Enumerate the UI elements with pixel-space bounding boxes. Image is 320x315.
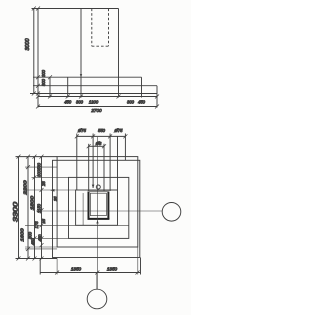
plan rect RB wide bbox=[53, 160, 140, 257]
arrow at pedestal base bbox=[80, 74, 82, 77]
left extension bottom bbox=[16, 258, 58, 260]
T1 extension socket right bbox=[109, 134, 111, 192]
left extension top bbox=[16, 156, 58, 158]
left extension 2200 bottom bbox=[25, 248, 57, 250]
left extension pedestal top bbox=[25, 189, 76, 191]
socket top thin line bbox=[88, 190, 110, 192]
svg-text:Ø75: Ø75 bbox=[77, 128, 87, 133]
bolt axis line bbox=[82, 193, 84, 225]
dimension line 3000 vertical bbox=[33, 9, 35, 94]
elevation: pedestal left edge bbox=[37, 9, 39, 94]
svg-text:560: 560 bbox=[37, 162, 42, 170]
elevation: upper step left edge bbox=[49, 77, 51, 97]
dim line L4 bbox=[41, 157, 43, 259]
svg-text:Ø8: Ø8 bbox=[95, 141, 102, 146]
socket inner rect bbox=[90, 193, 106, 215]
T1 extension arrow line bbox=[92, 134, 94, 189]
svg-text:300: 300 bbox=[37, 169, 42, 177]
svg-text:1150: 1150 bbox=[37, 203, 42, 213]
arrow under socket bbox=[96, 220, 98, 223]
dim line bottom row2 2700 bbox=[38, 106, 157, 108]
svg-text:25: 25 bbox=[41, 181, 46, 187]
svg-text:2200: 2200 bbox=[23, 180, 28, 196]
svg-text:300: 300 bbox=[41, 69, 46, 77]
svg-text:1600: 1600 bbox=[20, 228, 25, 242]
elevation: upper step top bbox=[33, 76, 142, 78]
svg-text:450: 450 bbox=[138, 99, 146, 104]
dim line L1 3300 bbox=[18, 157, 20, 259]
top dim line T2 bbox=[89, 145, 104, 147]
svg-text:450: 450 bbox=[37, 234, 42, 242]
ticks elevation bbox=[32, 7, 159, 109]
elevation: socket dashed right bbox=[108, 9, 110, 47]
svg-text:Ø75: Ø75 bbox=[114, 128, 124, 133]
elevation: inner vertical line bbox=[80, 9, 82, 98]
left extension pedestal bottom bbox=[25, 224, 129, 226]
bottom balloon bbox=[87, 289, 107, 309]
svg-text:300: 300 bbox=[27, 231, 32, 239]
T2 extensions bbox=[88, 144, 90, 191]
T ticks bbox=[75, 134, 128, 148]
svg-text:1200: 1200 bbox=[89, 99, 99, 104]
left extension R3 bottom bbox=[32, 237, 69, 239]
left extension R3 top bbox=[32, 176, 69, 178]
elevation: socket dashed bottom bbox=[92, 45, 109, 47]
anchor bolt circle bbox=[96, 185, 100, 189]
arrow at pedestal ext bbox=[50, 189, 55, 192]
tick at step corner bbox=[48, 75, 52, 79]
svg-text:175: 175 bbox=[34, 221, 39, 229]
svg-text:25: 25 bbox=[53, 196, 58, 202]
dim line bottom row1 bbox=[38, 96, 157, 98]
svg-text:3000: 3000 bbox=[25, 38, 31, 50]
svg-text:2700: 2700 bbox=[90, 108, 102, 113]
elevation: left extension for 2700 bbox=[37, 94, 39, 108]
elevation: pedestal right edge bbox=[118, 9, 120, 98]
elevation: upper step right edge bbox=[141, 77, 143, 97]
plan rect RA tall bbox=[57, 157, 138, 247]
arrow at socket bbox=[92, 185, 95, 188]
svg-text:1350: 1350 bbox=[71, 267, 82, 272]
svg-text:1350: 1350 bbox=[107, 267, 118, 272]
svg-text:300: 300 bbox=[41, 78, 46, 86]
horizontal axis bbox=[36, 210, 162, 212]
left extension 2200 top bbox=[25, 166, 57, 168]
left ticks bbox=[17, 155, 44, 261]
elevation: lower step right edge bbox=[156, 86, 158, 108]
bottom dim 1350+1350 bbox=[40, 272, 140, 274]
top dim line T1 bbox=[77, 135, 126, 137]
svg-text:3300: 3300 bbox=[13, 201, 20, 222]
elevation: pedestal top line bbox=[32, 8, 119, 10]
elevation: socket dashed left bbox=[91, 9, 93, 47]
T1 extension right bbox=[124, 134, 126, 161]
svg-text:300: 300 bbox=[76, 99, 84, 104]
svg-text:450: 450 bbox=[64, 99, 72, 104]
pedestal right extension up bbox=[117, 136, 119, 190]
svg-text:1800: 1800 bbox=[30, 195, 35, 210]
vertical axis bbox=[96, 137, 98, 290]
elevation: footing bottom bbox=[30, 93, 157, 95]
dim line L2 bbox=[27, 157, 29, 259]
socket thick rect bbox=[88, 192, 110, 219]
T1 extension bolt left bbox=[76, 134, 78, 191]
plan pedestal rect bbox=[76, 190, 118, 225]
svg-text:550: 550 bbox=[98, 128, 106, 133]
right balloon bbox=[162, 203, 181, 222]
svg-text:25: 25 bbox=[41, 218, 46, 224]
dim line L3 bbox=[34, 157, 36, 259]
elevation: inner step line left bbox=[67, 77, 69, 97]
svg-text:300: 300 bbox=[127, 99, 135, 104]
left extension 245 bbox=[25, 246, 57, 248]
plan rect R3 bbox=[69, 177, 129, 238]
bottom balloon leader bbox=[96, 274, 98, 290]
elevation: lower step top bbox=[33, 85, 157, 87]
